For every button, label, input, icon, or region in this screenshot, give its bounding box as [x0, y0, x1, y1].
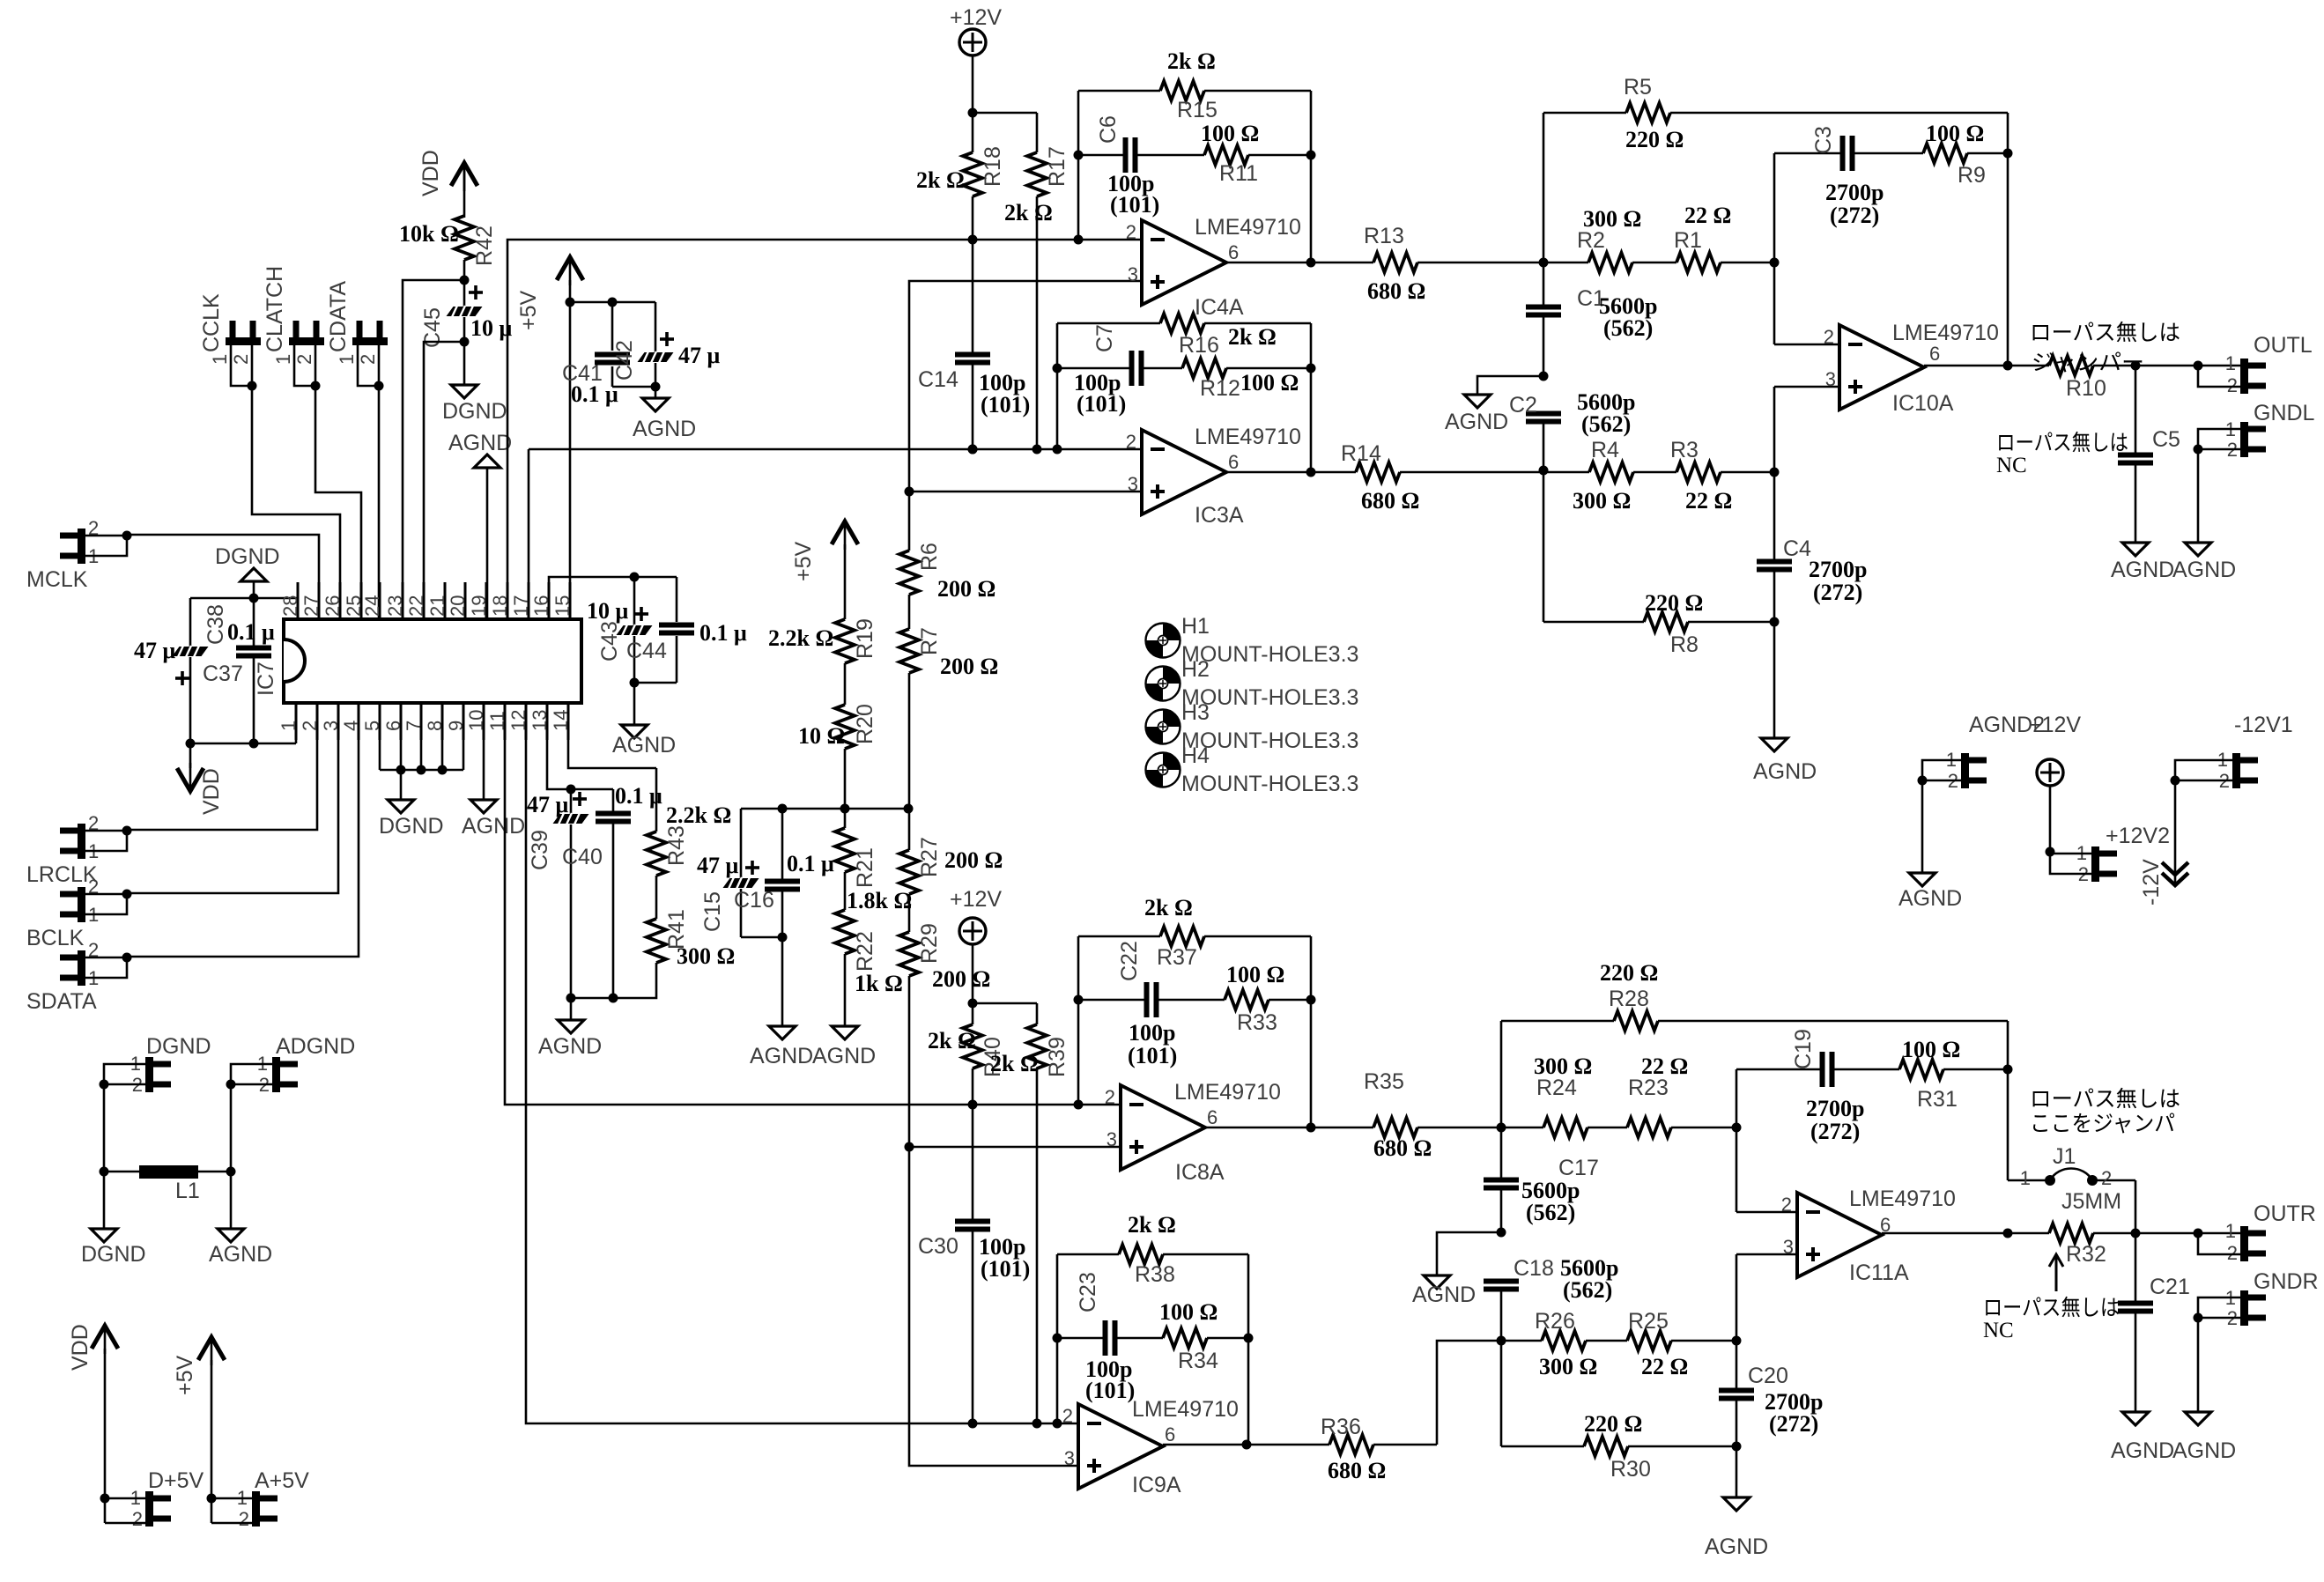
wire loop right rail — [1306, 91, 1316, 262]
mount hole H4 — [1146, 743, 1359, 796]
connector ADGND hdr — [257, 1034, 356, 1096]
svg-text:2: 2 — [2227, 1242, 2238, 1264]
resistor R24 — [1501, 1053, 1592, 1137]
svg-text:IC10A: IC10A — [1892, 391, 1954, 416]
node C17/C18 + AGND spur — [1437, 1228, 1506, 1276]
power flag VDD (down) — [177, 743, 224, 815]
op-amp IC3A — [1126, 425, 1301, 528]
svg-text:AGND: AGND — [1445, 410, 1508, 434]
svg-text:J5MM: J5MM — [2061, 1189, 2121, 1214]
svg-text:100p: 100p — [1129, 1020, 1175, 1046]
svg-text:1: 1 — [278, 721, 300, 731]
svg-text:R21: R21 — [853, 847, 877, 888]
svg-text:0.1 μ: 0.1 μ — [227, 619, 275, 645]
svg-text:IC9A: IC9A — [1132, 1473, 1181, 1497]
svg-text:2.2k Ω: 2.2k Ω — [666, 802, 731, 828]
svg-text:R18: R18 — [981, 146, 1005, 187]
wire IC4A out — [1226, 258, 1316, 268]
wire loop right rail (IC9A) — [1244, 1254, 1254, 1445]
svg-text:LME49710: LME49710 — [1174, 1080, 1281, 1105]
svg-text:27: 27 — [300, 595, 322, 617]
op-amp IC4A — [1126, 215, 1301, 320]
svg-text:10 μ: 10 μ — [587, 598, 629, 624]
svg-text:28: 28 — [279, 595, 301, 617]
ground AGND (C5) — [2111, 543, 2174, 582]
wire C4 to AGND — [1773, 622, 1776, 738]
svg-text:R16: R16 — [1179, 333, 1219, 358]
node R42/C45 — [403, 276, 470, 620]
svg-text:C22: C22 — [1117, 941, 1142, 981]
svg-text:6: 6 — [1165, 1423, 1175, 1445]
svg-text:(562): (562) — [1563, 1277, 1612, 1303]
ground AGND (C4) — [1753, 738, 1817, 784]
svg-text:R35: R35 — [1364, 1069, 1404, 1094]
svg-text:R13: R13 — [1364, 224, 1404, 248]
svg-text:1: 1 — [2020, 1167, 2031, 1189]
svg-text:3: 3 — [320, 721, 342, 731]
svg-text:100 Ω: 100 Ω — [1902, 1037, 1960, 1062]
svg-text:AGND: AGND — [633, 417, 696, 441]
svg-text:R1: R1 — [1674, 228, 1702, 253]
power flag +5V (C41 rail) — [516, 257, 583, 619]
svg-text:AGND: AGND — [1412, 1283, 1476, 1307]
ground DGND (pin6) — [379, 770, 444, 839]
svg-text:C2: C2 — [1509, 393, 1537, 418]
wire to IC9A pin3 — [909, 1147, 1078, 1466]
resistor R5 — [1543, 75, 2008, 152]
capacitor C6 — [1078, 115, 1204, 218]
resistor R10 — [2008, 356, 2106, 401]
svg-text:VDD: VDD — [68, 1324, 93, 1371]
op-amp IC11A — [1781, 1186, 1956, 1285]
capacitor C22 — [1078, 941, 1225, 1068]
svg-text:200 Ω: 200 Ω — [940, 654, 998, 679]
wire bias rail — [741, 804, 914, 814]
svg-text:VDD: VDD — [199, 768, 224, 815]
capacitor C44 — [626, 577, 747, 683]
svg-text:3: 3 — [1783, 1236, 1794, 1258]
power flag VDD (bottom) — [68, 1324, 118, 1523]
svg-text:MOUNT-HOLE3.3: MOUNT-HOLE3.3 — [1181, 772, 1358, 796]
svg-text:R43: R43 — [664, 825, 689, 866]
svg-text:R22: R22 — [853, 931, 877, 972]
svg-text:2: 2 — [299, 721, 321, 731]
svg-text:300 Ω: 300 Ω — [677, 943, 735, 969]
svg-text:22 Ω: 22 Ω — [1685, 488, 1732, 514]
resistor R32 — [2008, 1223, 2106, 1267]
capacitor C18 — [1484, 1255, 1618, 1346]
annotation jumper note (bottom) — [2030, 1087, 2180, 1136]
power flag +5V (R19) — [791, 521, 858, 619]
svg-text:H4: H4 — [1181, 743, 1210, 768]
svg-text:2.2k Ω: 2.2k Ω — [768, 625, 833, 651]
ground AGND (GNDL) — [2172, 543, 2236, 582]
wire C19 row — [1732, 1069, 1822, 1212]
svg-text:R7: R7 — [917, 627, 942, 655]
wire IC10A pin3 — [1774, 386, 1839, 388]
svg-text:2700p: 2700p — [1806, 1096, 1864, 1121]
svg-text:0.1 μ: 0.1 μ — [787, 851, 834, 876]
svg-text:R4: R4 — [1591, 438, 1619, 462]
svg-text:(562): (562) — [1603, 315, 1653, 341]
svg-text:(562): (562) — [1581, 411, 1631, 437]
svg-text:R10: R10 — [2066, 376, 2106, 401]
svg-text:H2: H2 — [1181, 657, 1210, 682]
svg-text:2k Ω: 2k Ω — [1128, 1212, 1176, 1238]
svg-text:AGND: AGND — [1753, 759, 1817, 784]
svg-text:C14: C14 — [918, 367, 958, 392]
ground AGND (C1/C2) — [1445, 395, 1508, 434]
wire R29 down to IC8A pin3 — [905, 976, 914, 1152]
annotation lowpass NC (top) — [1996, 431, 2128, 477]
wire D+5V loop — [100, 1494, 146, 1524]
op-amp IC9A — [1062, 1397, 1239, 1497]
connector MCLK — [26, 517, 319, 619]
wire C2 node down — [1543, 472, 1545, 622]
wire pin1 rail — [186, 703, 297, 749]
svg-text:ローパス無しは: ローパス無しは — [1983, 1296, 2120, 1320]
resistor R20 — [798, 704, 877, 749]
svg-text:R27: R27 — [917, 837, 942, 877]
svg-text:2k Ω: 2k Ω — [928, 1028, 976, 1053]
svg-text:NC: NC — [1996, 454, 2027, 477]
svg-text:D+5V: D+5V — [148, 1468, 204, 1493]
wire -12V1 loop — [2171, 760, 2233, 885]
svg-text:ジャンパー: ジャンパー — [2032, 351, 2144, 375]
wire GNDR loop — [2194, 1297, 2241, 1412]
node R9/R5 — [2003, 113, 2013, 371]
svg-text:6: 6 — [1207, 1106, 1218, 1128]
capacitor C40 — [562, 783, 662, 998]
svg-text:10 Ω: 10 Ω — [798, 723, 845, 749]
ground AGND (pin19) — [448, 431, 512, 619]
svg-text:0.1 μ: 0.1 μ — [571, 381, 618, 407]
svg-text:R9: R9 — [1958, 163, 1986, 188]
svg-text:200 Ω: 200 Ω — [944, 847, 1003, 873]
svg-text:2: 2 — [1126, 221, 1136, 243]
wire IC3A pin2 long — [529, 445, 1142, 455]
svg-text:1: 1 — [2225, 1220, 2236, 1242]
svg-text:R11: R11 — [1219, 161, 1258, 186]
connector +12V2 — [2076, 824, 2170, 885]
wire R28 right down — [2007, 1021, 2009, 1069]
svg-text:R25: R25 — [1628, 1309, 1669, 1334]
ground AGND (C21) — [2111, 1412, 2174, 1463]
resistor R34 — [1159, 1299, 1248, 1373]
wire R24-R23 — [1588, 1127, 1627, 1129]
wire OUTR pin2 loop — [2198, 1233, 2240, 1254]
ground AGND (C43/C44) — [612, 725, 676, 758]
svg-text:2: 2 — [230, 354, 252, 365]
svg-text:(101): (101) — [1085, 1378, 1135, 1403]
capacitor C3 — [1774, 126, 1923, 228]
connector BCLK — [26, 703, 338, 950]
wire IC8A out — [1205, 1123, 1316, 1133]
resistor R38 — [1057, 1212, 1248, 1287]
connector CCLK — [199, 293, 340, 619]
svg-text:R12: R12 — [1200, 376, 1240, 401]
svg-text:6: 6 — [1228, 241, 1239, 263]
wire R27-R29 — [908, 894, 911, 932]
svg-text:3: 3 — [1064, 1447, 1075, 1469]
svg-text:2k Ω: 2k Ω — [1167, 48, 1216, 74]
svg-text:R17: R17 — [1045, 146, 1069, 187]
node R31/J1 — [2003, 1065, 2013, 1181]
svg-text:+12V: +12V — [950, 5, 1002, 30]
wire R14 to node — [1400, 471, 1543, 474]
wire loop right rail (IC3A) — [1306, 323, 1316, 472]
svg-text:47 μ: 47 μ — [134, 638, 176, 663]
wire L1 right down — [230, 1172, 233, 1229]
svg-text:3: 3 — [1128, 263, 1138, 285]
wire +12V2 loop — [2046, 847, 2092, 875]
svg-text:IC8A: IC8A — [1175, 1160, 1225, 1185]
wire pin11 to IC8A pin2 — [505, 703, 1121, 1105]
connector OUTL — [2225, 333, 2313, 396]
wire C20 to AGND — [1736, 1446, 1738, 1497]
connector A+5V — [237, 1468, 309, 1530]
capacitor C15 — [697, 809, 759, 937]
resistor R1 — [1674, 203, 1774, 272]
svg-text:100 Ω: 100 Ω — [1926, 121, 1984, 146]
capacitor C41 — [562, 298, 637, 408]
resistor R17 — [1004, 113, 1069, 225]
power flag -12V — [2139, 859, 2188, 906]
svg-text:C19: C19 — [1791, 1029, 1816, 1069]
svg-text:ADGND: ADGND — [276, 1034, 355, 1059]
svg-text:10 μ: 10 μ — [470, 315, 513, 341]
wire IC10A out — [1924, 365, 2008, 367]
svg-text:R42: R42 — [472, 225, 497, 266]
wire R20 to rail — [844, 749, 847, 809]
svg-text:2700p: 2700p — [1825, 180, 1884, 205]
svg-text:C30: C30 — [918, 1234, 958, 1259]
svg-text:GNDL: GNDL — [2254, 401, 2315, 425]
svg-text:21: 21 — [426, 595, 448, 617]
wire L1 left down — [103, 1172, 106, 1229]
svg-text:-12V1: -12V1 — [2234, 713, 2293, 737]
wire pins5-9 rail — [380, 703, 463, 775]
svg-text:C40: C40 — [562, 845, 603, 869]
wire R32 to OUTR — [2093, 1229, 2240, 1238]
svg-text:(272): (272) — [1810, 1119, 1860, 1144]
ground AGND (AGND2) — [1898, 873, 1962, 911]
connector LRCLK — [26, 703, 317, 887]
wire loop right rail (IC8A) — [1306, 936, 1316, 1127]
node C1/C2 + AGND spur — [1477, 372, 1549, 395]
svg-text:2k Ω: 2k Ω — [1144, 895, 1193, 920]
svg-text:AGND: AGND — [538, 1034, 602, 1059]
wire R17 down to IC3A pin2 — [1032, 196, 1042, 455]
svg-text:C3: C3 — [1811, 126, 1836, 154]
svg-text:C38: C38 — [204, 604, 228, 645]
resistor R4 — [1543, 438, 1633, 514]
svg-text:R6: R6 — [917, 543, 942, 571]
svg-text:6: 6 — [1228, 451, 1239, 473]
svg-text:200 Ω: 200 Ω — [932, 966, 990, 992]
connector SDATA — [26, 703, 359, 1014]
node C45 bottom — [424, 337, 470, 620]
svg-text:ここをジャンパ: ここをジャンパ — [2030, 1113, 2175, 1136]
wire R26 row left spur — [1437, 1341, 1501, 1445]
supply +12V (mid) — [2029, 713, 2081, 852]
wire pin12 to IC9A pin2 — [526, 703, 1078, 1423]
wire IC4A pin2 (to pin18) — [507, 240, 1142, 619]
resistor R2 — [1543, 206, 1641, 272]
resistor R31 — [1899, 1037, 2008, 1112]
resistor R12 — [1182, 359, 1311, 401]
capacitor C38 — [204, 598, 275, 743]
resistor R35 — [1311, 1069, 1432, 1161]
svg-text:OUTL: OUTL — [2254, 333, 2313, 358]
resistor R16 — [1057, 314, 1311, 358]
svg-text:6: 6 — [1929, 343, 1940, 365]
svg-text:2: 2 — [1105, 1086, 1115, 1108]
wire loop left rail (IC3A) — [1053, 323, 1062, 455]
svg-text:C4: C4 — [1783, 536, 1811, 561]
svg-text:LME49710: LME49710 — [1849, 1186, 1956, 1211]
svg-text:R26: R26 — [1535, 1309, 1575, 1334]
svg-text:A+5V: A+5V — [255, 1468, 309, 1493]
svg-text:(101): (101) — [1110, 192, 1159, 218]
ground AGND (C15/C16) — [750, 1026, 813, 1068]
svg-text:C37: C37 — [203, 662, 243, 686]
ground AGND (L1) — [209, 1229, 272, 1267]
svg-text:300 Ω: 300 Ω — [1539, 1354, 1597, 1379]
resistor R3 — [1670, 438, 1774, 514]
resistor R29 — [899, 923, 990, 992]
node C41/C42 bottom — [612, 382, 661, 399]
mount hole H3 — [1146, 700, 1359, 753]
svg-text:47 μ: 47 μ — [527, 792, 569, 817]
svg-text:220 Ω: 220 Ω — [1645, 590, 1703, 616]
svg-text:(101): (101) — [981, 1256, 1030, 1282]
svg-text:IC7: IC7 — [254, 662, 278, 696]
svg-text:24: 24 — [361, 595, 383, 617]
wire C18 node down — [1500, 1341, 1503, 1446]
svg-text:1.8k Ω: 1.8k Ω — [847, 888, 912, 913]
ground DGND (C45) — [442, 385, 507, 424]
capacitor C43 — [587, 577, 653, 683]
supply +12V (bottom) — [950, 887, 1002, 1003]
svg-text:C18: C18 — [1514, 1256, 1554, 1281]
svg-text:R24: R24 — [1536, 1076, 1577, 1100]
svg-text:220 Ω: 220 Ω — [1625, 127, 1684, 152]
svg-text:R29: R29 — [917, 923, 942, 964]
svg-text:AGND: AGND — [462, 814, 525, 839]
capacitor C45 — [420, 280, 513, 348]
svg-text:R5: R5 — [1624, 75, 1652, 100]
svg-text:2k Ω: 2k Ω — [1228, 324, 1277, 350]
svg-text:R20: R20 — [853, 704, 877, 744]
svg-text:1: 1 — [336, 354, 358, 365]
svg-text:2: 2 — [2101, 1167, 2112, 1189]
svg-text:R15: R15 — [1177, 98, 1218, 122]
annotation jumper note (top) — [2030, 321, 2180, 375]
svg-text:1k Ω: 1k Ω — [855, 971, 903, 996]
capacitor C17 — [1484, 1127, 1599, 1232]
ground AGND (C42) — [633, 398, 696, 441]
wire R40 to pin2 node — [968, 1068, 978, 1110]
svg-text:20: 20 — [447, 595, 469, 617]
svg-text:AGND: AGND — [2172, 558, 2236, 582]
wire R36 to spur — [1373, 1444, 1437, 1446]
connector DGND hdr — [130, 1034, 211, 1096]
supply +12V (top) — [950, 5, 1002, 113]
ground AGND (GNDR) — [2172, 1412, 2236, 1463]
wire R19-R20 — [844, 663, 847, 705]
svg-text:DGND: DGND — [146, 1034, 211, 1059]
wire J1 to out — [2135, 1180, 2137, 1233]
resistor R13 — [1311, 224, 1425, 304]
svg-text:(272): (272) — [1769, 1411, 1818, 1437]
svg-text:+12V2: +12V2 — [2106, 824, 2170, 848]
svg-text:R14: R14 — [1341, 441, 1381, 466]
svg-text:NC: NC — [1983, 1319, 2014, 1342]
capacitor C21 — [2118, 1233, 2190, 1412]
svg-text:23: 23 — [384, 595, 406, 617]
svg-text:22 Ω: 22 Ω — [1641, 1354, 1688, 1379]
svg-text:R33: R33 — [1237, 1010, 1277, 1035]
capacitor C7 — [1057, 324, 1182, 417]
svg-text:H1: H1 — [1181, 614, 1210, 639]
svg-text:AGND: AGND — [2172, 1438, 2236, 1463]
svg-text:R36: R36 — [1321, 1415, 1361, 1439]
svg-text:C43: C43 — [597, 621, 622, 662]
svg-text:47 μ: 47 μ — [697, 853, 739, 878]
svg-text:2: 2 — [2227, 374, 2238, 396]
svg-text:MCLK: MCLK — [26, 567, 88, 592]
annotation NC arrow — [2049, 1254, 2063, 1291]
svg-text:J1: J1 — [2053, 1144, 2076, 1169]
svg-text:LME49710: LME49710 — [1195, 215, 1301, 240]
wire IC8A pin3 — [909, 1146, 1121, 1149]
svg-text:3: 3 — [1128, 473, 1138, 495]
wire node up to R28 — [1500, 1021, 1503, 1127]
resistor R25 — [1627, 1309, 1736, 1379]
wire R43-R41 — [655, 876, 658, 919]
wire R22 to AGND — [844, 954, 847, 1026]
mount hole H1 — [1146, 614, 1359, 667]
svg-text:AGND: AGND — [209, 1242, 272, 1267]
capacitor C16 — [734, 809, 834, 937]
svg-text:R2: R2 — [1577, 228, 1605, 253]
svg-text:AGND: AGND — [1705, 1534, 1768, 1559]
ground AGND (C17/C18) — [1412, 1275, 1476, 1307]
svg-text:200 Ω: 200 Ω — [937, 576, 995, 602]
wire R26-R25 — [1586, 1340, 1627, 1342]
svg-text:IC11A: IC11A — [1849, 1260, 1909, 1285]
wire R13 to node — [1417, 258, 1549, 268]
node R3/C4 — [1770, 387, 1780, 477]
IC U7 (DAC IC7) — [254, 582, 581, 740]
resistor R36 — [1247, 1415, 1386, 1483]
resistor R39 — [990, 1003, 1069, 1077]
ground AGND (R22) — [812, 1026, 876, 1068]
svg-text:AGND: AGND — [812, 1044, 876, 1068]
svg-text:ローパス無しは: ローパス無しは — [2030, 321, 2180, 345]
svg-text:R30: R30 — [1610, 1457, 1651, 1482]
svg-text:DGND: DGND — [442, 399, 507, 424]
resistor R14 — [1311, 441, 1419, 514]
svg-text:22: 22 — [405, 595, 427, 617]
svg-text:(101): (101) — [981, 392, 1030, 418]
connector D+5V — [130, 1468, 204, 1530]
capacitor C14 — [918, 240, 1030, 455]
ground AGND (pin10) — [462, 703, 525, 839]
svg-text:(562): (562) — [1526, 1200, 1575, 1225]
resistor R22 — [835, 910, 903, 996]
